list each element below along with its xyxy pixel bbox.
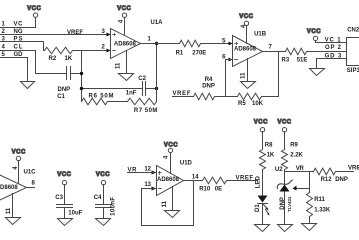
resistor R8 1K — [260, 132, 266, 196]
svg-text:0E: 0E — [215, 187, 222, 193]
svg-text:C1: C1 — [57, 94, 65, 100]
svg-text:VREF: VREF — [236, 175, 254, 181]
svg-text:1nF: 1nF — [126, 90, 137, 96]
U1D pin 4 wire — [170, 153, 172, 174]
resistor R5 10K — [238, 93, 279, 100]
wire U1B output — [263, 51, 286, 53]
svg-text:D1: D1 — [255, 204, 261, 212]
svg-text:AD8608: AD8608 — [0, 185, 18, 191]
svg-text:11: 11 — [116, 62, 122, 69]
wire VR to U1D pin 12 — [128, 172, 157, 174]
U1A pin 4 wire — [124, 18, 126, 36]
svg-text:10uF: 10uF — [68, 211, 82, 217]
svg-text:DNP: DNP — [280, 197, 286, 210]
svg-text:1K: 1K — [65, 56, 73, 62]
svg-text:AD8608: AD8608 — [114, 41, 137, 47]
svg-text:U1B: U1B — [254, 32, 267, 38]
svg-text:CN2: CN2 — [347, 27, 359, 33]
svg-text:VREF: VREF — [173, 91, 191, 97]
junction U1A output — [155, 42, 158, 45]
svg-text:R8: R8 — [265, 143, 273, 149]
wire feedback vertical U1B — [278, 52, 280, 97]
U1B pin 11 wire — [247, 59, 249, 82]
resistor R9 2.2K — [282, 132, 288, 184]
svg-text:VCC: VCC — [239, 14, 253, 20]
U1B pin 4 wire — [246, 26, 248, 44]
svg-text:VR: VR — [128, 167, 138, 173]
resistor R2 1K — [45, 47, 111, 54]
svg-text:DNP: DNP — [202, 83, 215, 89]
svg-text:U1D: U1D — [180, 160, 193, 166]
svg-text:R6 50M: R6 50M — [89, 93, 114, 99]
connector CN1 pin 3 PS / wire to R2 — [1, 42, 44, 51]
svg-text:VCC: VCC — [164, 142, 178, 148]
connector CN1 pin 2 NG / wire VREF to U1A pin3 — [1, 34, 111, 36]
connector CN1 pin 1 VC — [1, 18, 36, 28]
svg-text:4: 4 — [119, 19, 125, 23]
svg-text:R7 50M: R7 50M — [134, 108, 158, 114]
VCC symbol (CN1) — [27, 6, 41, 17]
svg-text:TLV431: TLV431 — [287, 196, 292, 212]
connector CN1 pin 4 CL / wire to C1 — [1, 51, 67, 74]
svg-text:14: 14 — [192, 174, 199, 180]
svg-text:13: 13 — [144, 182, 151, 188]
svg-text:R12: R12 — [321, 177, 333, 183]
junction C2 left — [80, 87, 83, 90]
capacitor C1 DNP — [67, 67, 82, 80]
wire U1D pin 13 feedback loop — [142, 181, 194, 226]
VCC symbol (R8) — [254, 120, 268, 132]
svg-text:AD8608: AD8608 — [157, 177, 180, 183]
svg-text:R4: R4 — [205, 77, 213, 83]
svg-text:1: 1 — [2, 22, 6, 28]
U2 ref arrow wire — [297, 188, 310, 190]
svg-text:R2: R2 — [49, 56, 57, 62]
op-amp U1C AD8608 (clipped) — [0, 173, 27, 203]
svg-text:4: 4 — [163, 155, 169, 159]
ground (U2) — [278, 225, 293, 232]
svg-text:VCC: VCC — [12, 150, 26, 156]
connector CN1 pin 5 GD / wire to ground — [1, 58, 28, 82]
ground (U1A pin11) — [119, 74, 134, 81]
svg-text:R5: R5 — [238, 101, 246, 107]
svg-text:C4: C4 — [94, 195, 102, 201]
svg-text:1.33K: 1.33K — [314, 208, 331, 214]
ground (R11) — [302, 224, 317, 231]
ground (U1C pin11) — [6, 218, 21, 225]
VCC symbol (U1A) — [117, 6, 131, 17]
svg-text:R1: R1 — [176, 50, 184, 56]
svg-text:R11: R11 — [314, 197, 325, 203]
svg-text:12: 12 — [144, 167, 151, 173]
svg-text:1: 1 — [148, 37, 152, 43]
svg-text:VCC: VCC — [254, 120, 268, 126]
svg-text:R10: R10 — [199, 187, 211, 193]
resistor R11 1.33K — [307, 172, 313, 224]
VCC symbol (CN2) — [307, 29, 321, 41]
svg-text:VC: VC — [14, 22, 24, 28]
svg-text:CL: CL — [14, 45, 23, 51]
svg-text:4: 4 — [2, 45, 6, 51]
resistor R1 270E — [180, 40, 233, 47]
svg-text:VCC: VCC — [57, 172, 71, 178]
junction C1 — [80, 72, 83, 75]
svg-text:51E: 51E — [297, 58, 308, 64]
svg-text:11: 11 — [6, 207, 12, 214]
svg-text:VCC: VCC — [117, 6, 131, 12]
capacitor C2 1nF — [82, 82, 157, 96]
VCC symbol (U1D) — [164, 142, 178, 152]
resistor R3 51E — [286, 48, 347, 55]
resistor R12 DNP — [314, 168, 354, 175]
svg-text:VR: VR — [296, 166, 305, 172]
svg-text:VCC: VCC — [96, 172, 110, 178]
VCC symbol wire (CN2) — [316, 41, 347, 43]
op-amp U1B AD8608 — [229, 36, 263, 67]
connector CN2 pin 3 GD wire — [317, 59, 347, 69]
wire VR node — [285, 171, 314, 173]
svg-text:VREF: VREF — [67, 30, 83, 36]
wire U1D output — [184, 180, 203, 182]
svg-text:U1A: U1A — [151, 20, 164, 26]
capacitor C3 10uF — [57, 185, 73, 219]
resistor R7 50M — [128, 98, 157, 105]
svg-text:VCC: VCC — [27, 6, 41, 12]
resistor R10 0E — [203, 177, 258, 184]
svg-text:270E: 270E — [192, 50, 206, 56]
svg-text:PS: PS — [14, 36, 23, 42]
ground (U1B pin11) — [241, 82, 256, 89]
U1D pin 11 wire — [172, 187, 174, 211]
svg-text:10K: 10K — [252, 101, 264, 107]
svg-text:SIP3: SIP3 — [347, 68, 359, 74]
VCC symbol (R9) — [277, 120, 291, 132]
VREF label wire (mid) — [173, 96, 194, 98]
op-amp U1A AD8608 — [107, 29, 141, 59]
ground (C3) — [58, 219, 73, 226]
node: inverting input net vertical — [81, 51, 83, 102]
VCC symbol (C3) — [57, 172, 71, 185]
op-amp U1D AD8608 — [152, 166, 184, 196]
U1C pin 11 wire — [12, 194, 14, 218]
VCC symbol (U1B) — [239, 14, 253, 25]
svg-text:NG: NG — [14, 29, 23, 35]
wire U1A output to R1 — [141, 43, 180, 45]
svg-text:100nF: 100nF — [111, 197, 117, 216]
svg-text:5: 5 — [2, 52, 6, 58]
svg-text:7: 7 — [269, 45, 273, 51]
junction C2 right — [155, 87, 158, 90]
shunt regulator U2 TLV431 DNP — [277, 180, 292, 225]
connector CN2 body SIP3 — [347, 38, 359, 66]
svg-text:GD 3: GD 3 — [325, 54, 342, 60]
svg-text:C3: C3 — [55, 195, 63, 201]
svg-text:U1C: U1C — [24, 169, 37, 175]
svg-text:AD8608: AD8608 — [234, 47, 257, 53]
svg-text:VC 1: VC 1 — [325, 37, 342, 43]
ground (CN1 GD) — [21, 82, 35, 89]
ground (U1D pin11) — [165, 211, 180, 218]
resistor R6 50M — [82, 98, 128, 105]
resistor R4 DNP — [194, 93, 238, 100]
svg-text:C2: C2 — [138, 76, 146, 82]
svg-text:VCC: VCC — [277, 120, 291, 126]
ground (D1) — [255, 225, 270, 232]
U1B pin 6 wire — [226, 60, 233, 97]
ground (C4) — [96, 219, 111, 226]
VCC symbol (C4) — [96, 172, 110, 185]
svg-text:LED: LED — [256, 176, 262, 189]
svg-text:DNP: DNP — [58, 87, 71, 93]
svg-text:2: 2 — [101, 45, 105, 51]
svg-text:OP 2: OP 2 — [325, 45, 342, 51]
svg-text:U2: U2 — [275, 167, 283, 173]
wire feedback vertical U1A — [156, 44, 158, 102]
svg-text:4: 4 — [241, 24, 247, 28]
svg-text:DNP: DNP — [335, 177, 348, 183]
U1A pin 11 wire — [126, 51, 128, 74]
svg-text:11: 11 — [240, 72, 246, 79]
svg-text:GD: GD — [14, 52, 24, 58]
U1C pin 4 wire — [18, 161, 20, 184]
svg-text:8: 8 — [32, 181, 36, 187]
svg-text:R3: R3 — [282, 58, 290, 64]
svg-text:1K: 1K — [267, 153, 275, 159]
VCC symbol (U1C) — [12, 150, 26, 161]
U1C pin 8 wire — [27, 187, 35, 189]
ground (CN2 GD) — [310, 69, 325, 76]
svg-text:11: 11 — [162, 200, 168, 207]
svg-text:VREF: VREF — [348, 166, 359, 172]
svg-text:VCC: VCC — [307, 29, 321, 35]
LED D1 — [258, 196, 270, 225]
svg-text:R9: R9 — [290, 143, 298, 149]
capacitor C4 100nF — [96, 185, 112, 219]
svg-text:2.2K: 2.2K — [290, 153, 303, 159]
